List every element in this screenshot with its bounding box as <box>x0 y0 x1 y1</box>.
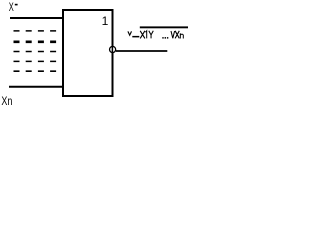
gate body U1 (OR element, GOST rectangle) <box>63 10 113 96</box>
wire output y <box>116 50 167 52</box>
wire dashed input 4 <box>14 51 64 53</box>
output label y <box>128 31 132 35</box>
svg-text:Xn: Xn <box>1 94 12 108</box>
wire segment through bubble <box>111 46 113 53</box>
OR symbol v (second) <box>171 31 175 38</box>
svg-text:1: 1 <box>102 14 109 28</box>
formula glyph X (of X1) <box>140 31 145 39</box>
equals dash <box>132 36 139 38</box>
formula glyph 1 <box>146 31 147 39</box>
wire dashed input 2 <box>14 30 64 32</box>
wire dashed input 6 <box>14 70 64 72</box>
formula glyph X (of Xn) <box>175 31 179 39</box>
inversion bubble at output <box>110 46 116 52</box>
ellipsis dots <box>162 37 163 39</box>
OR symbol v (first) <box>149 31 154 39</box>
wire input Xn <box>9 86 63 88</box>
wire dashed input 3 <box>14 40 64 43</box>
negation overline over X1...Xn <box>140 26 188 28</box>
formula glyph n <box>180 33 183 38</box>
svg-text:X: X <box>9 0 14 14</box>
wire input X1 <box>10 17 63 19</box>
wire dashed input 5 <box>14 60 64 62</box>
